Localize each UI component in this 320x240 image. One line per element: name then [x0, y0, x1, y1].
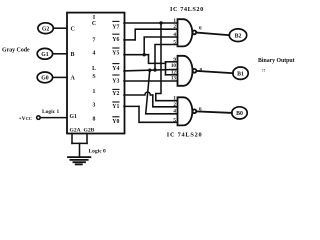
- svg-text:13: 13: [171, 75, 177, 81]
- svg-text:B0: B0: [236, 111, 243, 117]
- svg-text:G0: G0: [41, 76, 49, 82]
- svg-text:IC 74LS20: IC 74LS20: [170, 6, 204, 13]
- wire gate1 output to B2: [196, 33, 229, 36]
- svg-text:G1: G1: [70, 114, 78, 120]
- svg-text:G2: G2: [42, 26, 50, 32]
- svg-text:1: 1: [173, 18, 176, 24]
- svg-text:Y5: Y5: [112, 51, 119, 57]
- svg-text:Y4: Y4: [112, 66, 119, 72]
- svg-text:G2B: G2B: [84, 128, 95, 134]
- wire Y6 riser to gate1 pin2: [135, 29, 177, 40]
- overbars for Y labels: [112, 21, 119, 116]
- wire Y4 drop to B0 pin4: [146, 70, 178, 114]
- svg-text:C: C: [92, 21, 96, 27]
- wire Y5 riser to gate1 pin4: [144, 37, 177, 55]
- svg-text:10: 10: [171, 63, 177, 69]
- gate3 pin numbers: [173, 96, 176, 124]
- svg-text:Y2: Y2: [112, 91, 119, 97]
- wire riser to gate2 pin9 and pin12: [165, 62, 167, 75]
- svg-text:A: A: [71, 76, 76, 82]
- svg-text:2: 2: [173, 102, 176, 108]
- gray input G0: [37, 72, 52, 83]
- svg-text:IC 74LS20: IC 74LS20: [167, 131, 203, 138]
- svg-text:6: 6: [199, 107, 202, 113]
- svg-text:Y0: Y0: [112, 119, 119, 125]
- wire Y4 stub to gate2 pin10: [124, 69, 178, 71]
- NAND gate U2a 74LS20 (B2): [178, 19, 197, 46]
- NAND gate U3a 74LS20 (B0): [178, 97, 197, 125]
- node Y4-B0p4 junction: [148, 69, 151, 72]
- wire gate3 output to B0: [196, 111, 232, 113]
- gray input G2: [38, 23, 53, 34]
- svg-text:5: 5: [173, 40, 176, 46]
- svg-text:1: 1: [93, 89, 96, 95]
- wire gate2 pin12: [166, 74, 178, 76]
- svg-text:Logic 1: Logic 1: [42, 109, 60, 115]
- svg-text:9: 9: [173, 57, 176, 63]
- wire gate2 output to B1: [196, 71, 233, 73]
- svg-text:L: L: [92, 66, 96, 72]
- wire G2B pin down: [86, 134, 88, 144]
- output circle B0: [232, 107, 247, 119]
- junction dots: [143, 21, 163, 72]
- svg-text:8: 8: [200, 68, 203, 74]
- wire Vcc to G1 pin: [40, 117, 67, 119]
- svg-text:Y6: Y6: [112, 37, 119, 43]
- svg-text:G2A: G2A: [70, 128, 81, 134]
- output circle B2: [229, 29, 246, 42]
- wire G1 to B: [53, 53, 67, 55]
- node Y4-p5 junction: [153, 68, 156, 71]
- node Y5-p4 junction: [143, 53, 146, 56]
- wire to ground: [79, 143, 81, 157]
- svg-text:4: 4: [173, 109, 176, 115]
- wire joining bar: [72, 142, 87, 144]
- svg-text:1: 1: [173, 96, 176, 102]
- wire G2 to C: [53, 27, 67, 29]
- node Y7-B0 junction: [159, 21, 162, 24]
- svg-text:6: 6: [199, 26, 202, 32]
- svg-text:Logic 0: Logic 0: [89, 149, 107, 155]
- svg-text:Y1: Y1: [112, 104, 119, 110]
- Vcc terminal circle: [37, 116, 41, 120]
- svg-text:Binary Output: Binary Output: [258, 58, 295, 64]
- wire gate2 pin9: [166, 61, 178, 63]
- output circle B1: [233, 67, 248, 79]
- svg-text:G1: G1: [41, 52, 49, 58]
- svg-text:::: ::: [262, 69, 266, 74]
- gate2 pin numbers: [171, 57, 177, 82]
- svg-text:S: S: [92, 74, 95, 80]
- wire Y5 stub: [124, 54, 149, 56]
- wire Y2 drop to B0 pin2: [153, 95, 178, 107]
- svg-text:Y3: Y3: [112, 78, 119, 84]
- svg-text:7: 7: [93, 38, 96, 44]
- wire Y5 jog across: [149, 55, 166, 64]
- svg-text:4: 4: [173, 32, 176, 38]
- wire Y6 stub: [124, 39, 135, 41]
- wire G2A pin down: [71, 134, 73, 144]
- IC U1 74LS138 body: [67, 13, 125, 134]
- svg-text:2: 2: [173, 24, 176, 30]
- svg-text:B1: B1: [237, 71, 244, 77]
- IC name vertical IC 74LS138: [92, 15, 96, 123]
- wire G0 to A: [53, 76, 67, 78]
- svg-text:B: B: [71, 52, 75, 58]
- svg-text:3: 3: [93, 103, 96, 109]
- svg-text:5: 5: [173, 117, 176, 123]
- wire Y1 stub: [124, 105, 139, 107]
- svg-text:8: 8: [93, 117, 96, 123]
- svg-text:4: 4: [93, 50, 96, 56]
- wire Y1 drop to B0 pin5: [139, 106, 178, 122]
- wire Y2 stub with crossover hop: [124, 92, 153, 95]
- wire Y4 riser to gate1 pin5: [155, 45, 178, 71]
- svg-text:Gray Code: Gray Code: [2, 48, 30, 54]
- wire Y7 stub to gate1 pin1: [124, 22, 178, 24]
- gray input G1: [37, 48, 52, 59]
- svg-text:Y7: Y7: [112, 25, 119, 31]
- gate1 pin numbers: [173, 18, 176, 46]
- ground symbol: [68, 157, 90, 164]
- svg-text:B2: B2: [235, 33, 242, 39]
- svg-text:C: C: [71, 27, 75, 33]
- wire Y3 stub to gate2 pin13: [124, 80, 178, 82]
- IC output labels Y7..Y0 with overbars: [112, 25, 119, 125]
- wire node Y7 riser to B0 pin1: [156, 23, 178, 101]
- NAND gate U2b 74LS20 (B1): [178, 56, 197, 86]
